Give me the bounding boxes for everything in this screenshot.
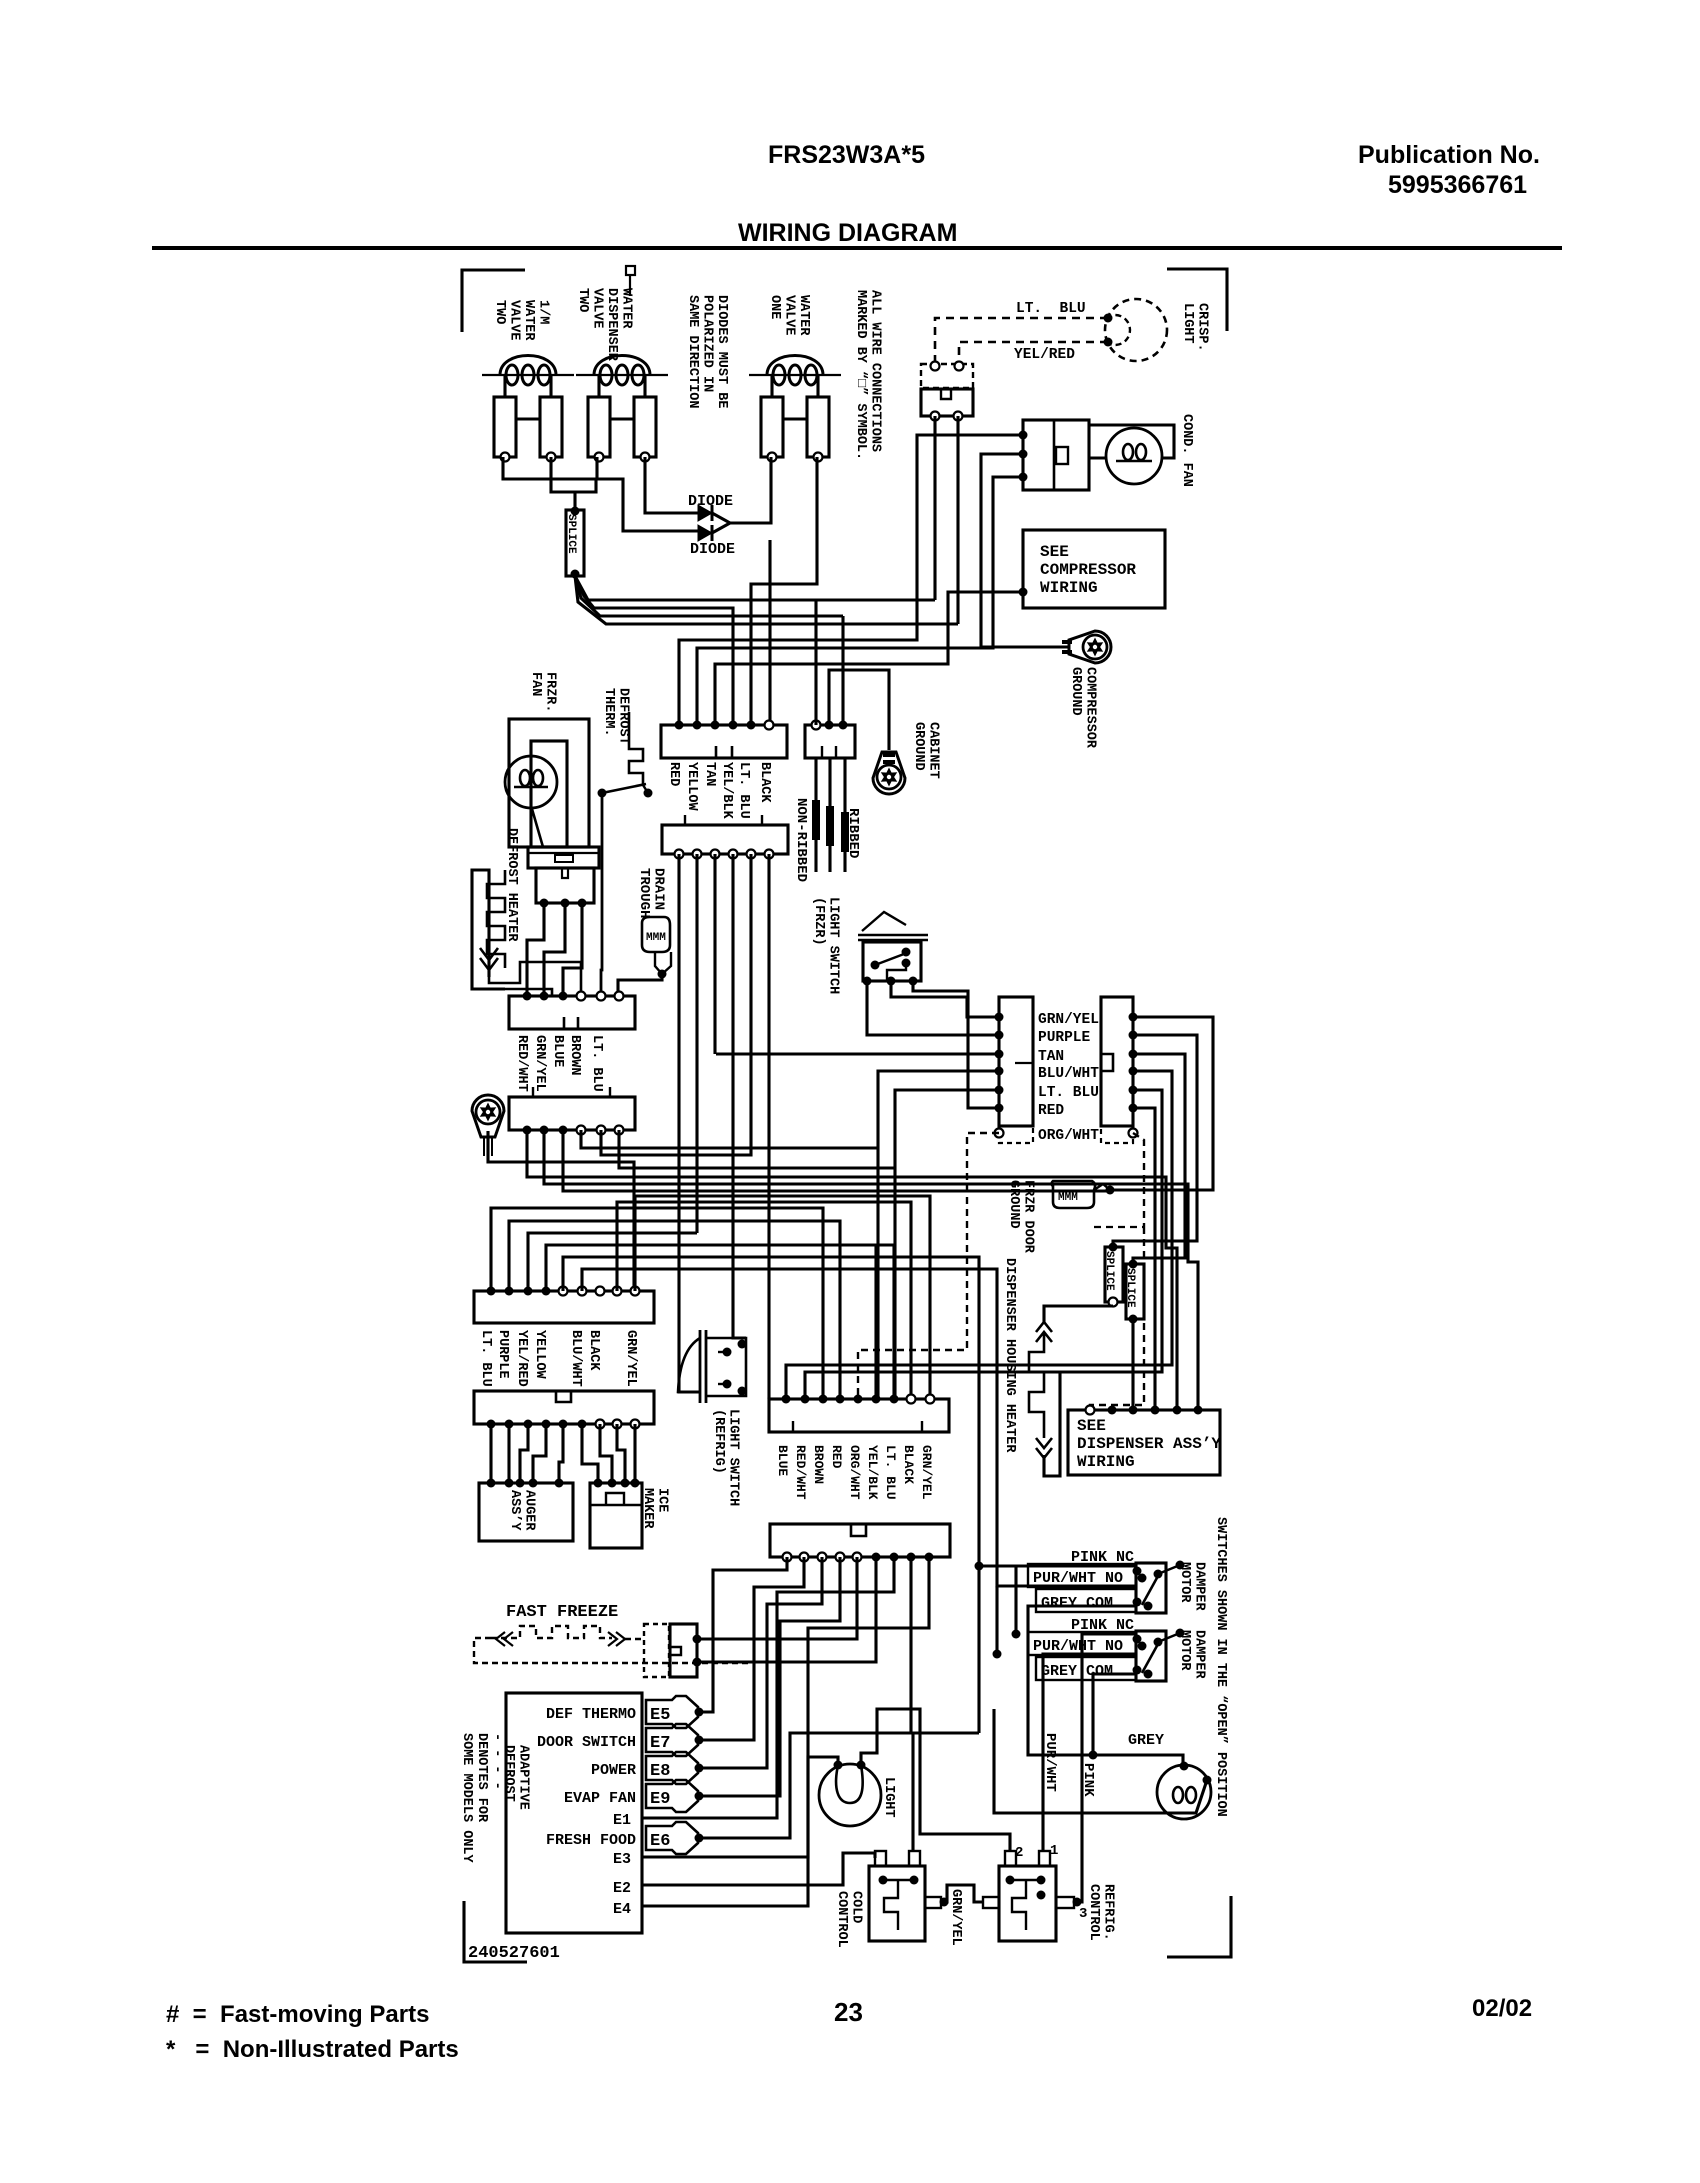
corner bracket top-left — [462, 270, 525, 332]
svg-text:POLARIZED IN: POLARIZED IN — [700, 295, 715, 392]
svg-text:E7: E7 — [650, 1734, 670, 1753]
svg-text:BROWN: BROWN — [567, 1035, 582, 1076]
wire: valve L2 right terminal to diode D1 — [645, 457, 698, 513]
wire: relay pin 2 to compressor ground — [981, 454, 1068, 647]
svg-text:SEE: SEE — [1040, 543, 1069, 561]
svg-text:ONE: ONE — [767, 295, 782, 319]
svg-text:DIODES MUST BE: DIODES MUST BE — [714, 295, 729, 408]
svg-text:BLUE: BLUE — [550, 1035, 565, 1067]
corner bracket bottom-left — [464, 1901, 527, 1962]
wire: J7 pin6 to fast freeze switch pin2 — [698, 1557, 876, 1662]
svg-text:FRS23W3A*5: FRS23W3A*5 — [768, 141, 925, 169]
svg-text:TAN: TAN — [1038, 1049, 1064, 1065]
svg-text:GRN/YEL: GRN/YEL — [1038, 1012, 1099, 1028]
svg-text:FRZR DOOR: FRZR DOOR — [1021, 1180, 1036, 1254]
wire: J4 pin 4 to J6 — [546, 1245, 894, 1399]
svg-text:YEL/RED: YEL/RED — [1014, 347, 1075, 363]
svg-text:PURPLE: PURPLE — [1038, 1030, 1091, 1046]
splice S3 — [1126, 1264, 1144, 1319]
wire: J1A pin3 down to TAN bus — [713, 854, 716, 1054]
svg-text:CONTROL: CONTROL — [834, 1891, 849, 1948]
svg-text:MOTOR: MOTOR — [1177, 1562, 1192, 1603]
svg-text:FAN: FAN — [528, 672, 543, 696]
svg-text:RED/WHT: RED/WHT — [793, 1445, 808, 1500]
svg-text:(FRZR): (FRZR) — [811, 897, 826, 946]
svg-text:CRISP.: CRISP. — [1195, 303, 1210, 352]
svg-text:LIGHT: LIGHT — [1180, 303, 1195, 344]
svg-text:LIGHT: LIGHT — [881, 1777, 896, 1818]
svg-text:WATER: WATER — [619, 288, 634, 329]
svg-text:AUGER: AUGER — [522, 1490, 537, 1531]
connector J1A (mate) — [662, 825, 788, 854]
wire: J4 pin 8 to J6 grn/yel — [635, 1196, 930, 1399]
svg-text:THERM.: THERM. — [601, 688, 616, 737]
power cord middle conductor — [828, 758, 831, 872]
wire: switch SW2 to strip RED — [913, 981, 999, 1108]
wire: cold control right terminal up — [913, 1733, 979, 1851]
ice maker — [590, 1483, 642, 1548]
svg-text:COLD: COLD — [849, 1891, 864, 1923]
dashed wire: ORG/WHT left strip to connector J6 — [858, 1133, 999, 1399]
freezer fan shroud connector — [536, 868, 594, 903]
svg-text:LT. BLU: LT. BLU — [1016, 301, 1086, 317]
svg-text:ASS’Y: ASS’Y — [507, 1490, 522, 1531]
svg-text:2: 2 — [1015, 1845, 1023, 1861]
connector J5 (8-pin) — [474, 1391, 654, 1424]
wire: block pin 1 to bus — [814, 600, 817, 725]
svg-text:E3: E3 — [613, 1851, 631, 1868]
wire: damper switch A lever to motor — [1158, 1565, 1180, 1574]
svg-text:GREY COM: GREY COM — [1041, 1663, 1113, 1680]
refrigerator control (thermostat) — [983, 1897, 999, 1908]
wire: damper motor to bus — [994, 1709, 1207, 1813]
svg-text:DISPENSER HOUSING HEATER: DISPENSER HOUSING HEATER — [1002, 1258, 1017, 1453]
crisper light bulb — [1105, 299, 1167, 361]
svg-text:POWER: POWER — [591, 1762, 636, 1779]
wire: freezer fan leads to connector J2 — [527, 903, 544, 996]
svg-text:PUR/WHT NO: PUR/WHT NO — [1033, 1570, 1123, 1587]
square connection mark — [626, 266, 635, 275]
svg-text:GRN/YEL: GRN/YEL — [532, 1035, 547, 1092]
wire: splice S2 to dispenser heater — [1044, 1306, 1113, 1322]
freezer light switch SW2 — [862, 912, 906, 931]
connector J1 (6-pin) — [661, 725, 787, 758]
svg-text:E8: E8 — [650, 1762, 670, 1781]
svg-text:DISPENSER: DISPENSER — [604, 288, 619, 362]
wire: light bulb right to refrig control 2 — [861, 1709, 1010, 1851]
wire: block pin 2 to cabinet ground — [829, 670, 889, 750]
drain trough heater — [642, 917, 670, 952]
title rule — [152, 246, 1562, 250]
svg-text:FRZR.: FRZR. — [543, 672, 558, 713]
svg-text:LT. BLU: LT. BLU — [736, 762, 751, 819]
see dispenser assy wiring box — [1068, 1410, 1220, 1475]
freezer door ground symbol (MMM) — [1052, 1181, 1096, 1208]
wire: damper switch B lever to motor — [1158, 1633, 1180, 1642]
wire: relay to cond fan — [1089, 456, 1106, 459]
wire: ground lug tail — [488, 1131, 634, 1291]
splice S2 — [1105, 1247, 1123, 1302]
connector J3 (mate of J2) — [509, 1097, 635, 1130]
wire: strip P2 GRN/YEL right-down — [1110, 1017, 1213, 1190]
svg-text:VALVE: VALVE — [507, 300, 522, 341]
svg-text:GROUND: GROUND — [1068, 667, 1083, 716]
svg-text:SPLICE: SPLICE — [1103, 1251, 1115, 1291]
svg-text:FAST FREEZE: FAST FREEZE — [506, 1603, 618, 1622]
svg-text:CONTROL: CONTROL — [1086, 1884, 1101, 1941]
relay / overload protector — [1023, 420, 1089, 490]
svg-text:# = Fast-moving Parts: # = Fast-moving Parts — [166, 2001, 429, 2028]
wire: switch SW2 to strip GRN/YEL — [891, 981, 999, 1017]
wire: J1A pin4 down to light switch refrig bracket — [733, 854, 746, 1338]
damper switch B — [1136, 1631, 1166, 1681]
connector strip P2 (right half) — [1101, 997, 1133, 1126]
freezer fan motor M2 — [505, 756, 557, 808]
svg-text:PINK: PINK — [1080, 1763, 1096, 1797]
svg-text:5995366761: 5995366761 — [1388, 171, 1527, 199]
connector J4 (8-pin) — [474, 1291, 654, 1323]
wire: J5 pins to auger assy — [489, 1424, 492, 1483]
wire: grey B to motor bus — [1093, 1674, 1137, 1755]
svg-text:ALL WIRE CONNECTIONS: ALL WIRE CONNECTIONS — [868, 290, 883, 452]
solenoid L1 1/M water valve two — [482, 374, 574, 376]
svg-text:- - - -: - - - - — [489, 1733, 504, 1790]
wire: BLU/WHT from strip down — [878, 1071, 999, 1399]
svg-text:COMPRESSOR: COMPRESSOR — [1040, 561, 1136, 579]
splice S1 — [573, 492, 576, 510]
svg-text:BLU/WHT: BLU/WHT — [568, 1330, 583, 1387]
wire: J7 pin1 to E5 — [699, 1557, 787, 1712]
svg-text:CABINET: CABINET — [926, 722, 941, 779]
svg-text:MOTOR: MOTOR — [1177, 1630, 1192, 1671]
svg-text:ADAPTIVE: ADAPTIVE — [516, 1745, 531, 1810]
dashed wire: ORG/WHT right strip down to dispenser — [1133, 1133, 1144, 1227]
svg-text:E6: E6 — [650, 1832, 670, 1851]
wire: switch SW1 to buses — [933, 416, 936, 600]
svg-text:RED: RED — [666, 762, 681, 786]
svg-text:DAMPER: DAMPER — [1192, 1630, 1207, 1680]
svg-text:SOME MODELS ONLY: SOME MODELS ONLY — [459, 1733, 474, 1864]
svg-text:DOOR SWITCH: DOOR SWITCH — [537, 1734, 636, 1751]
wire: compressor box to connector J1 pin 3 — [1019, 588, 1028, 597]
connector J7 (9-pin) — [770, 1524, 950, 1557]
svg-text:TWO: TWO — [492, 300, 507, 324]
adaptive defrost control board — [506, 1693, 642, 1933]
wire: LT. BLU from strip down — [895, 1090, 999, 1399]
wire: relay pin 3 to connector J1 pin 2 — [697, 477, 1023, 725]
svg-text:LT. BLU: LT. BLU — [478, 1330, 493, 1387]
svg-text:FRESH FOOD: FRESH FOOD — [546, 1832, 636, 1849]
svg-text:E1: E1 — [613, 1812, 631, 1829]
svg-text:DISPENSER ASS’Y: DISPENSER ASS’Y — [1077, 1435, 1221, 1453]
wire: valve L3 right to connector J1 — [751, 457, 817, 725]
connector strip P1 (left half) — [999, 997, 1033, 1126]
svg-text:PURPLE: PURPLE — [495, 1330, 510, 1379]
svg-text:LT. BLU: LT. BLU — [1038, 1085, 1099, 1101]
svg-text:DENOTES FOR: DENOTES FOR — [474, 1733, 489, 1823]
wire: J4 pin 5 to damper switch A pink — [563, 1257, 1137, 1566]
diode D2 — [698, 525, 712, 541]
refrigerator light bulb — [819, 1764, 881, 1826]
svg-text:SPLICE: SPLICE — [565, 514, 577, 554]
svg-text:LIGHT SWITCH: LIGHT SWITCH — [726, 1409, 741, 1506]
svg-text:E9: E9 — [650, 1790, 670, 1809]
wire: defrost heater leads to connector J2 — [505, 989, 552, 996]
wire: LT. BLU dashed to crisper light — [935, 318, 1108, 364]
svg-text:SWITCHES SHOWN IN THE “OPEN” P: SWITCHES SHOWN IN THE “OPEN” POSITION — [1213, 1517, 1228, 1817]
wire: J1A pin6 down to connector J6 edge — [767, 854, 770, 1399]
wire: strip P2 BLU/WHT right-down to connector J6 — [786, 1071, 1172, 1399]
svg-text:DEFROST HEATER: DEFROST HEATER — [504, 828, 519, 942]
svg-text:DAMPER: DAMPER — [1192, 1562, 1207, 1612]
wire: J4 pin 2 to J6 — [509, 1221, 840, 1399]
svg-text:GREY COM: GREY COM — [1041, 1595, 1113, 1612]
wire: J4 pin 3 to J6 — [528, 1233, 697, 1291]
svg-text:Publication No.: Publication No. — [1358, 141, 1540, 169]
cabinet ground lug — [873, 752, 905, 794]
svg-text:BLACK: BLACK — [757, 762, 772, 803]
terminal block TB1 — [805, 725, 855, 758]
svg-text:WIRING: WIRING — [1077, 1453, 1135, 1471]
svg-text:VALVE: VALVE — [590, 288, 605, 329]
wire: J7 pin8 to E6 — [699, 1557, 911, 1838]
svg-text:YELLOW: YELLOW — [684, 762, 699, 812]
freezer fan bracket — [509, 719, 589, 847]
svg-text:BLACK: BLACK — [586, 1330, 601, 1371]
svg-text:SPLICE: SPLICE — [1124, 1268, 1136, 1308]
fast freeze switch SW4 — [644, 1624, 669, 1677]
solenoid L3 water valve one — [749, 374, 841, 376]
svg-text:PUR/WHT: PUR/WHT — [1042, 1733, 1058, 1792]
svg-text:ORG/WHT: ORG/WHT — [1038, 1128, 1099, 1144]
wire: relay top to cond fan right side — [1089, 425, 1174, 458]
freezer fan lead — [532, 809, 543, 847]
wire: J1A pin2 down to J4 mesh — [695, 854, 698, 1233]
see compressor wiring box — [1023, 530, 1165, 608]
wire: J7 pin2 to E7 — [699, 1557, 804, 1740]
svg-text:1/M: 1/M — [536, 300, 551, 324]
svg-text:YELLOW: YELLOW — [532, 1330, 547, 1380]
wire: J1A pin1 down to light switch refrig — [679, 854, 700, 1392]
connector J2 (6-pin) — [509, 996, 635, 1029]
condenser fan motor M1 — [1106, 428, 1162, 484]
svg-text:GREY: GREY — [1128, 1732, 1164, 1749]
wire: E2 to cold control — [642, 1853, 875, 1885]
wire: J4 pin 1 to J6 — [491, 1208, 823, 1399]
svg-text:WATER: WATER — [521, 300, 536, 341]
wire: pink B from refrig control 3 — [1077, 1634, 1137, 1902]
wire: J7 pin5 to fast freeze switch — [698, 1557, 857, 1639]
svg-text:VALVE: VALVE — [782, 295, 797, 336]
wire: pink chain switch A to switch B — [1014, 1566, 1017, 1634]
svg-text:YEL/RED: YEL/RED — [514, 1330, 529, 1387]
svg-text:RED/WHT: RED/WHT — [514, 1035, 529, 1092]
corner bracket bottom-right — [1167, 1896, 1231, 1957]
wire: pur/wht chain switch A to switch B — [995, 1586, 998, 1654]
svg-text:TAN: TAN — [702, 762, 717, 786]
svg-text:TWO: TWO — [575, 288, 590, 312]
svg-text:LT. BLU: LT. BLU — [883, 1445, 898, 1500]
svg-text:YEL/BLK: YEL/BLK — [865, 1445, 880, 1500]
freezer door ground lug — [472, 1095, 504, 1137]
wire: diode junction to valve L3 left terminal — [712, 457, 771, 523]
svg-text:* = Non-Illustrated Parts: * = Non-Illustrated Parts — [166, 2036, 459, 2063]
svg-text:240527601: 240527601 — [468, 1944, 560, 1963]
svg-text:E5: E5 — [650, 1706, 670, 1725]
wire: J4 pin 6 to damper switch A pur/wht — [582, 1269, 1137, 1586]
corner bracket top-right — [1167, 269, 1227, 331]
crisper light switch SW1 body — [921, 389, 973, 416]
svg-text:E4: E4 — [613, 1901, 631, 1918]
refrig damper motor M3 — [1157, 1765, 1211, 1819]
wire: grey A to motor bus — [1028, 1606, 1137, 1755]
svg-text:GRN/YEL: GRN/YEL — [919, 1445, 934, 1500]
wire: strip P2 PURPLE right-down to splice S2 — [1113, 1035, 1197, 1247]
svg-text:02/02: 02/02 — [1472, 1995, 1532, 2022]
svg-text:GROUND: GROUND — [1006, 1180, 1021, 1229]
wire: splice S3 down to dispenser box — [1131, 1319, 1134, 1410]
svg-text:WIRING DIAGRAM: WIRING DIAGRAM — [738, 219, 957, 247]
svg-text:BLU/WHT: BLU/WHT — [1038, 1066, 1099, 1082]
drain trough ground clip — [655, 952, 662, 974]
svg-text:TROUGH: TROUGH — [636, 868, 652, 918]
wire: strip P2 LT. BLU right-down to connector J6 — [805, 1090, 1162, 1399]
svg-text:COMPRESSOR: COMPRESSOR — [1083, 667, 1098, 749]
svg-text:WATER: WATER — [796, 295, 811, 336]
wire: J4 pin 7 stub — [617, 1202, 911, 1399]
strip P1 dashed ORG/WHT section — [999, 1126, 1033, 1143]
wire: J5 pins to ice maker — [582, 1424, 598, 1483]
svg-text:GROUND: GROUND — [911, 722, 926, 771]
crisper light switch SW1 cap (dashed) — [921, 364, 973, 388]
wire: diode output down to connector J1 — [768, 540, 771, 725]
defrost heater — [472, 870, 505, 989]
solenoid L2 water dispenser valve two — [576, 374, 668, 376]
wire: strip P2 RED down to dispenser box — [1133, 1108, 1155, 1410]
svg-text:REFRIG.: REFRIG. — [1101, 1884, 1116, 1941]
svg-text:DIODE: DIODE — [690, 541, 735, 558]
power cord ribbed conductor — [843, 758, 846, 872]
connector J6 (9-pin) — [769, 1399, 949, 1432]
svg-text:GRN/YEL: GRN/YEL — [623, 1330, 638, 1387]
wire: J7 pin7 to E1 — [642, 1557, 894, 1818]
svg-text:23: 23 — [834, 1997, 863, 2027]
wire: splice junction to diode D2 — [597, 479, 698, 531]
svg-text:COND. FAN: COND. FAN — [1179, 414, 1194, 487]
auger assembly — [479, 1483, 573, 1541]
svg-text:EVAP FAN: EVAP FAN — [564, 1790, 636, 1807]
damper switch A — [1136, 1563, 1166, 1613]
dashed wire: fast freeze to switch — [625, 1638, 644, 1640]
svg-text:DEF THERMO: DEF THERMO — [546, 1706, 636, 1723]
wire bus: splice fan-out — [575, 576, 935, 600]
svg-text:RED: RED — [1038, 1103, 1064, 1119]
svg-text:MARKED BY “□” SYMBOL.: MARKED BY “□” SYMBOL. — [853, 290, 868, 460]
wire: grn/yel jumper cold to refrig control — [944, 1885, 983, 1902]
svg-text:(REFRIG): (REFRIG) — [711, 1409, 726, 1474]
svg-text:ORG/WHT: ORG/WHT — [847, 1445, 862, 1500]
wire: J7 pin3 to E8 — [699, 1557, 822, 1768]
wire: J7 pin9 to E3 — [642, 1557, 929, 1857]
svg-text:ICE: ICE — [655, 1488, 670, 1512]
svg-text:WIRING: WIRING — [1040, 579, 1098, 597]
svg-text:E2: E2 — [613, 1880, 631, 1897]
freezer fan shroud — [528, 847, 599, 868]
svg-text:MMM: MMM — [1058, 1192, 1078, 1204]
wires: connector J3 pins down to bus mesh — [527, 1130, 1177, 1410]
svg-text:BROWN: BROWN — [811, 1445, 826, 1484]
wire: pur/wht B from refrig control 1 — [1043, 1654, 1137, 1851]
svg-text:MAKER: MAKER — [640, 1488, 655, 1529]
defrost heater arrow — [480, 948, 498, 970]
wire: YEL/RED dashed to crisper light — [959, 342, 1108, 364]
power cord non-ribbed conductor — [814, 758, 817, 872]
wire: TAN to strip from bus — [716, 1052, 999, 1055]
compressor ground lug — [1069, 631, 1111, 663]
svg-text:RED: RED — [829, 1445, 844, 1469]
wire: valve L1/L2 terminals junction — [503, 457, 597, 479]
svg-text:YEL/BLK: YEL/BLK — [719, 762, 734, 820]
defrost thermostat switch — [598, 789, 607, 798]
wire: defrost thermostat to connector J2 — [601, 793, 602, 996]
wire: E4 bus — [642, 1757, 838, 1906]
wire: block pin 3 to bus — [841, 616, 844, 725]
wire: J7 pin4 to E9 — [699, 1557, 840, 1796]
wire: strip P2 TAN right-down to splice S3 — [1133, 1054, 1185, 1264]
svg-text:RIBBED: RIBBED — [845, 808, 861, 858]
svg-text:LIGHT SWITCH: LIGHT SWITCH — [826, 897, 841, 994]
cold control — [869, 1866, 925, 1941]
wire: switch SW2 to strip PURPLE — [867, 981, 999, 1035]
svg-text:GRN/YEL: GRN/YEL — [948, 1889, 963, 1946]
diode D1 — [698, 505, 712, 521]
svg-text:SAME DIRECTION: SAME DIRECTION — [685, 295, 700, 408]
svg-text:BLUE: BLUE — [775, 1445, 790, 1476]
svg-text:LT. BLU: LT. BLU — [589, 1035, 604, 1092]
strip P2 dashed ORG/WHT section — [1101, 1126, 1133, 1143]
refrigerator light switch SW3 — [699, 1330, 702, 1403]
wire: drain trough to connector J2 — [618, 974, 662, 996]
svg-text:DIODE: DIODE — [688, 493, 733, 510]
svg-text:BLACK: BLACK — [901, 1445, 916, 1484]
svg-text:1: 1 — [1050, 1843, 1058, 1859]
svg-text:MMM: MMM — [646, 932, 666, 944]
wire: relay pin 1 to connector J1 pin 1 — [679, 435, 1023, 725]
dispenser housing heater — [1029, 1322, 1052, 1458]
svg-text:NON-RIBBED: NON-RIBBED — [793, 798, 809, 882]
svg-text:SEE: SEE — [1077, 1417, 1106, 1435]
